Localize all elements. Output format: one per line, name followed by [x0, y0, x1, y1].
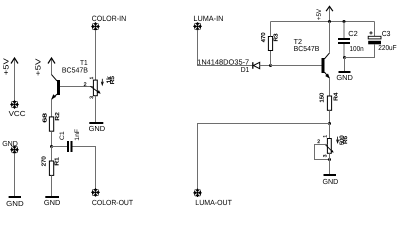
svg-text:R6: R6	[343, 136, 349, 144]
resistor R1	[49, 161, 53, 175]
supply +5V arrow (above T1)	[48, 58, 55, 75]
svg-text:D1: D1	[241, 65, 250, 74]
junction dot (rail / T2 collector)	[328, 20, 331, 23]
node GND pinhead	[10, 146, 18, 154]
wire junction to R3	[270, 51, 272, 66]
svg-text:3: 3	[323, 154, 329, 157]
node COLOR-OUT pinhead	[91, 188, 99, 196]
capacitor C1	[67, 141, 73, 152]
trimmer R6	[325, 139, 334, 154]
wire COLOR-IN to R5	[95, 30, 97, 80]
svg-text:+5V: +5V	[316, 8, 323, 20]
ground symbol (R5)	[89, 122, 103, 124]
transistor T2 BC547B	[322, 22, 330, 97]
capacitor C3	[368, 36, 381, 44]
svg-text:270: 270	[42, 156, 48, 166]
ground symbol (R1)	[45, 196, 59, 198]
svg-text:3: 3	[89, 96, 95, 99]
svg-text:VCC: VCC	[9, 109, 26, 118]
svg-text:R3: R3	[274, 34, 280, 42]
svg-text:220uF: 220uF	[378, 43, 397, 52]
svg-text:1nF: 1nF	[74, 129, 81, 141]
ground symbol (left column)	[9, 196, 21, 198]
svg-text:C1: C1	[59, 131, 66, 140]
trimmer direction arrow (R5)	[101, 79, 103, 85]
wire R1 to ground	[51, 175, 53, 196]
wire LUMA-IN to D1	[198, 30, 253, 66]
svg-text:2: 2	[84, 82, 87, 88]
+5V rail wire	[271, 21, 375, 23]
wire D1 to junction	[260, 65, 271, 67]
trimmer direction arrow (R6)	[337, 137, 339, 143]
junction dot (R4/R6/LUMA-OUT)	[328, 122, 331, 125]
svg-text:R2: R2	[55, 112, 61, 120]
node COLOR-IN pinhead	[91, 22, 99, 30]
wire R3 to +5V rail	[270, 22, 272, 37]
svg-text:1: 1	[89, 76, 95, 79]
wire R4 to junction	[329, 110, 331, 123]
svg-text:BC547B: BC547B	[62, 66, 88, 75]
ground symbol (R6)	[324, 174, 337, 176]
trimmer R5	[90, 80, 100, 96]
svg-text:GND: GND	[6, 199, 24, 207]
svg-text:100n: 100n	[350, 44, 364, 53]
svg-text:GND: GND	[323, 177, 339, 186]
supply +5V arrow (rail)	[326, 6, 333, 21]
resistor R2	[49, 117, 53, 131]
ground symbol (C2/C3)	[339, 71, 351, 73]
svg-text:1: 1	[323, 135, 329, 138]
plus sign (C3 polarity)	[369, 31, 372, 34]
wire junction to T2 base	[271, 65, 322, 67]
wire junction to C1	[52, 146, 68, 148]
wire R6 to ground	[329, 153, 331, 174]
wire R5 to ground	[95, 96, 97, 122]
svg-text:C2: C2	[348, 29, 358, 38]
junction dot (rail / C2)	[343, 20, 346, 23]
svg-text:BC547B: BC547B	[294, 44, 320, 53]
node LUMA-IN pinhead	[193, 22, 201, 30]
diode D1	[253, 62, 260, 69]
wire C1 to COLOR-OUT	[73, 147, 96, 190]
svg-text:R1: R1	[54, 157, 60, 165]
wire C2 to junction	[343, 44, 345, 58]
wire junction to R1	[51, 147, 53, 162]
svg-text:R5: R5	[110, 76, 116, 84]
junction dot (D1/R3/T2 base)	[269, 64, 272, 67]
wire junction to R6	[329, 124, 331, 139]
svg-text:GND: GND	[44, 198, 61, 207]
resistor R3	[268, 37, 272, 51]
svg-text:LUMA-OUT: LUMA-OUT	[195, 198, 232, 207]
svg-text:+5V: +5V	[1, 58, 10, 75]
transistor T1 BC547B	[51, 75, 60, 117]
junction dot (R1/R2/C1)	[50, 145, 53, 148]
wire junction to ground (C2/C3)	[344, 58, 346, 72]
node VCC pinhead	[10, 100, 18, 108]
svg-text:GND: GND	[336, 73, 353, 82]
svg-text:+5V: +5V	[33, 58, 42, 76]
junction dot (C2/C3/GND)	[343, 56, 346, 59]
wire R2 to junction	[51, 131, 53, 146]
wire rail to C2	[343, 22, 345, 39]
svg-text:150: 150	[320, 93, 326, 103]
wire rail to C3	[374, 22, 376, 37]
wire T1 base to R5 wiper	[60, 86, 93, 88]
resistor R4	[327, 96, 331, 110]
svg-text:C3: C3	[382, 29, 391, 38]
junction dot (R6 bottom)	[328, 158, 331, 161]
supply +5V arrow (left, above VCC)	[11, 58, 18, 101]
wire GND pinhead to ground	[14, 153, 16, 196]
svg-text:68: 68	[42, 113, 48, 123]
wire C3 to junction	[345, 44, 375, 57]
svg-text:470: 470	[261, 33, 267, 43]
wire junction to LUMA-OUT	[198, 124, 330, 190]
svg-text:COLOR-IN: COLOR-IN	[92, 14, 127, 23]
node LUMA-OUT pinhead	[193, 189, 201, 197]
svg-text:LUMA-IN: LUMA-IN	[193, 14, 223, 23]
svg-text:GND: GND	[89, 124, 106, 133]
svg-text:COLOR-OUT: COLOR-OUT	[92, 198, 134, 207]
wire R6 wiper loop to pin 3	[315, 145, 330, 160]
svg-text:R4: R4	[334, 93, 340, 101]
capacitor C2	[338, 38, 350, 44]
